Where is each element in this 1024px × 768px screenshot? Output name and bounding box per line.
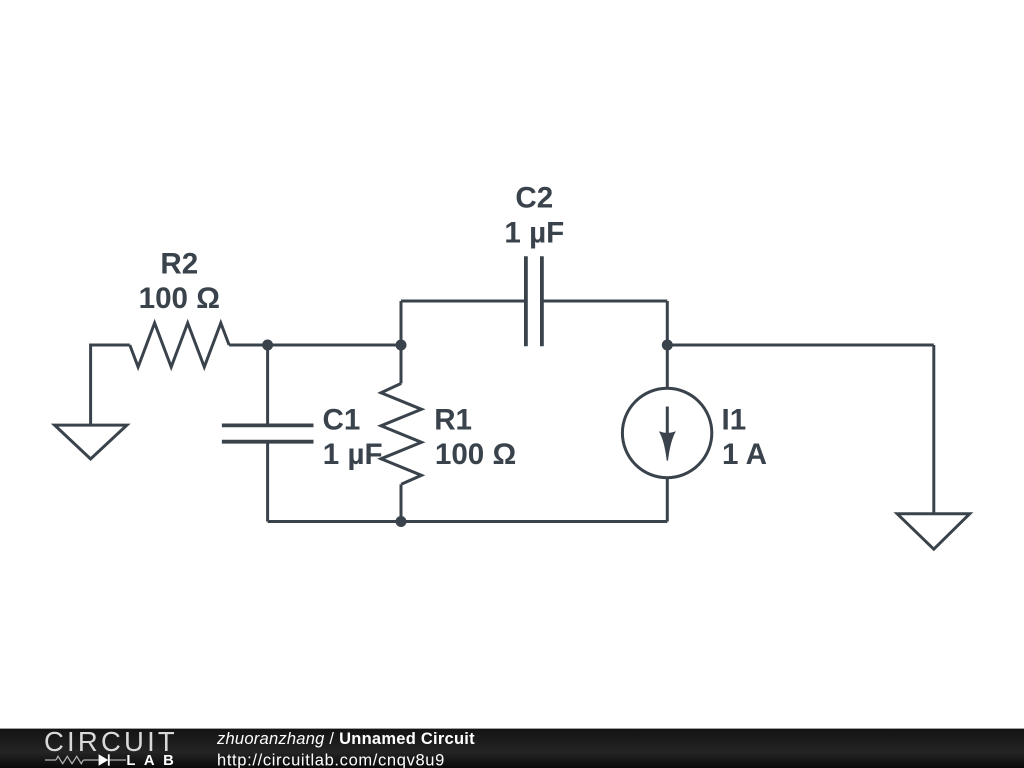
wire — [266, 345, 269, 425]
wire — [401, 300, 526, 303]
svg-text:100 Ω: 100 Ω — [435, 438, 516, 471]
node D — [396, 516, 407, 527]
svg-text:I1: I1 — [722, 404, 747, 437]
svg-text:zhuoranzhang / Unnamed Circuit: zhuoranzhang / Unnamed Circuit — [216, 730, 475, 748]
wire — [667, 344, 934, 347]
wire — [542, 300, 667, 303]
wire — [400, 345, 403, 383]
svg-text:R1: R1 — [434, 404, 472, 437]
wire — [666, 345, 669, 388]
wire — [268, 344, 401, 347]
svg-text:1 µF: 1 µF — [504, 216, 564, 249]
wire — [932, 345, 935, 513]
current source I1 — [622, 388, 711, 477]
svg-text:1 A: 1 A — [722, 438, 767, 471]
ground — [897, 514, 970, 549]
logo resistor-diode glyph — [45, 756, 126, 763]
node A — [262, 340, 273, 351]
resistor R2 — [130, 323, 229, 367]
capacitor C1 — [222, 425, 314, 441]
wire — [401, 520, 667, 523]
wire — [666, 301, 669, 345]
ground — [55, 425, 127, 459]
footer bar — [0, 729, 1024, 768]
wire — [229, 344, 268, 347]
svg-text:100 Ω: 100 Ω — [139, 282, 220, 315]
node B — [396, 340, 407, 351]
resistor R1 — [381, 383, 422, 484]
wire — [400, 484, 403, 521]
capacitor C2 — [526, 256, 542, 346]
wire — [666, 478, 669, 521]
wire — [400, 301, 403, 345]
wire — [91, 345, 130, 425]
svg-text:1 µF: 1 µF — [323, 438, 383, 471]
svg-text:http://circuitlab.com/cnqv8u9: http://circuitlab.com/cnqv8u9 — [217, 751, 445, 768]
wire — [266, 442, 269, 522]
wire — [268, 520, 401, 523]
svg-text:C1: C1 — [323, 404, 361, 437]
svg-text:C2: C2 — [515, 182, 553, 215]
logo diode — [99, 754, 110, 765]
svg-text:R2: R2 — [160, 248, 198, 281]
svg-text:LAB: LAB — [126, 753, 182, 768]
node C — [662, 340, 673, 351]
